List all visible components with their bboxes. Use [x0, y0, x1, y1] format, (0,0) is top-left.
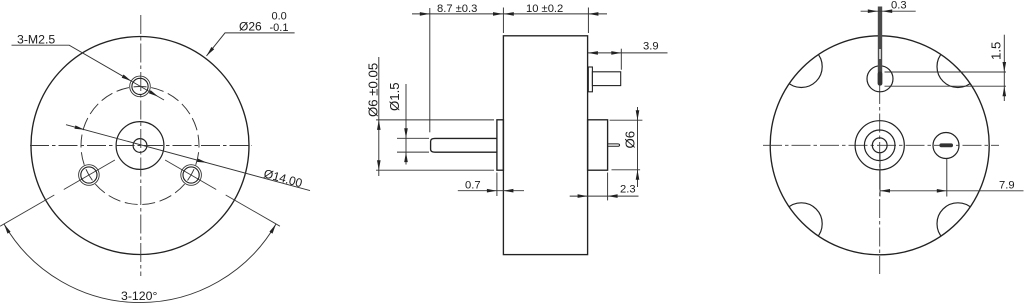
screw hole M2.5 lower-right [181, 165, 202, 186]
dimension Ø6±0.05 line [378, 57, 380, 176]
dimension Ø1.5 extension lines [397, 138, 429, 152]
svg-text:Ø6: Ø6 [623, 131, 638, 149]
arrow 3.9 right [611, 51, 621, 55]
top terminal hole circle [867, 66, 893, 92]
extension line shaft tip [429, 8, 431, 132]
extension line flange corner [496, 173, 498, 197]
svg-text:Ø1.5: Ø1.5 [387, 82, 402, 111]
front view vertical centerline [140, 15, 142, 276]
svg-text:-0.1: -0.1 [270, 22, 289, 34]
svg-text:Ø14.00: Ø14.00 [262, 166, 304, 190]
bolt circle Ø14 dashed [81, 87, 199, 205]
dimension 3.9 line [588, 52, 668, 54]
front view boss circle Ø6 [116, 122, 164, 170]
right terminal blade [939, 143, 953, 147]
arrow 3.9 left [588, 51, 598, 55]
extension line body left [502, 8, 504, 34]
extension line body right top [587, 8, 589, 34]
arrow 2.3 right [608, 194, 618, 198]
arrows at middle extension [493, 12, 514, 16]
Ø14 arrow left [75, 125, 85, 129]
front view outer circle Ø26 [31, 37, 249, 255]
arrow 8.7 left [420, 12, 430, 16]
svg-text:3-M2.5: 3-M2.5 [17, 33, 55, 47]
front view shaft circle Ø1.5 [133, 139, 147, 153]
side view shaft flange [497, 120, 504, 170]
top terminal blade [878, 72, 883, 86]
arrow 0.3 left [868, 9, 878, 13]
arrow 0.7 left [487, 189, 497, 193]
arrow Ø1.5 bottom [404, 152, 408, 162]
dimension Ø6 can extension lines [610, 120, 643, 170]
side view terminal plate [588, 67, 592, 92]
svg-text:Ø6 ±0.05: Ø6 ±0.05 [366, 63, 381, 117]
arc arrow right [269, 224, 276, 234]
arrow 7.9 right [937, 189, 947, 193]
radial centerline lower-right hole [165, 160, 216, 190]
dimension Ø6 can line [637, 107, 639, 187]
dimension Ø6±0.05 extension lines [376, 120, 494, 170]
rim cutout top-left [780, 46, 822, 88]
Ø14 arrow right [197, 159, 207, 163]
rear view vertical centerline [879, 28, 881, 274]
arrow Ø1.5 top [404, 128, 408, 138]
dimension 1.5 line [1003, 35, 1005, 101]
svg-text:10 ±0.2: 10 ±0.2 [526, 3, 563, 15]
extension line terminal tip [620, 49, 622, 70]
arrow 0.7 right [503, 189, 513, 193]
radial centerline lower-left hole [64, 160, 115, 190]
leader 3-M2.5 line [12, 45, 165, 100]
Ø26 leader arrow [207, 47, 215, 56]
svg-text:0.7: 0.7 [465, 180, 481, 192]
side view gearbox body [503, 36, 587, 255]
svg-text:3-120°: 3-120° [121, 289, 157, 303]
dimension 7.9 extension lines [880, 152, 947, 197]
dimension line top chain [412, 13, 607, 15]
svg-text:Ø26: Ø26 [239, 20, 262, 34]
side view terminal stub [592, 72, 620, 86]
side view motor can [588, 120, 608, 170]
extension line can right corner [607, 173, 609, 201]
dimension 1.5 extension lines [885, 72, 1007, 86]
dimension 2.3 line [570, 195, 639, 197]
dimension 7.9 line [880, 190, 1024, 192]
svg-text:0.3: 0.3 [891, 0, 907, 12]
dimension Ø1.5 line [405, 84, 407, 165]
arrow Ø6 can bottom [636, 170, 640, 180]
extension line to angle arc right [226, 195, 280, 226]
arc arrow left [4, 224, 11, 234]
side view rear shaft stub [608, 144, 620, 146]
screw hole M2.5 lower-left [79, 165, 100, 186]
arrow Ø6±0.05 bottom [377, 160, 381, 170]
rim cutout bottom-left [780, 203, 822, 245]
front view horizontal centerline [30, 145, 252, 147]
arrow 1.5 bottom [1003, 86, 1007, 96]
arrow 7.9 left [880, 189, 890, 193]
svg-text:8.7 ±0.3: 8.7 ±0.3 [437, 3, 477, 15]
side view output shaft Ø1.5 [431, 138, 497, 152]
angular dimension arc 120° [4, 224, 276, 303]
svg-text:1.5: 1.5 [989, 42, 1004, 60]
arrow 0.3 right [882, 9, 892, 13]
extension line to angle arc left [0, 195, 54, 226]
leader 3-M2.5 second arrow [149, 90, 159, 97]
rim cutout top-right [937, 46, 979, 88]
right terminal hole circle [933, 133, 959, 159]
screw hole M2.5 top [130, 76, 151, 97]
dimension 0.7 line [458, 190, 524, 192]
leader 3-M2.5 arrow at hole [122, 75, 132, 82]
leader Ø26 polyline [207, 33, 295, 56]
top terminal lead wire [878, 7, 882, 73]
arrow Ø6±0.05 top [377, 120, 381, 130]
arrow 2.3 left [578, 194, 588, 198]
dimension 0.3 line [861, 10, 916, 12]
svg-text:3.9: 3.9 [643, 40, 659, 52]
svg-text:0.0: 0.0 [272, 11, 287, 23]
arrow Ø6 can top [636, 110, 640, 120]
arrow 10 right [588, 12, 598, 16]
rear bearing boss circles [855, 121, 904, 170]
svg-text:2.3: 2.3 [620, 184, 636, 196]
rim cutout bottom-right [937, 203, 979, 245]
rear view outer circle [770, 36, 989, 255]
svg-text:7.9: 7.9 [999, 179, 1015, 191]
arrow 1.5 top [1003, 62, 1007, 72]
rear view horizontal centerline [763, 144, 999, 146]
leader dimension Ø14.00 line [66, 125, 310, 191]
